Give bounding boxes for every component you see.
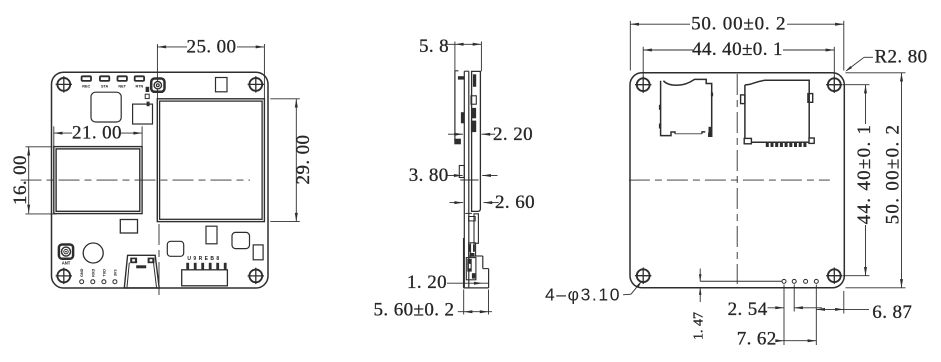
side profile: bottom connectors bbox=[469, 243, 476, 256]
dim 2.20 bbox=[448, 133, 463, 135]
mounting hole top-left bbox=[56, 76, 72, 92]
square component bbox=[133, 104, 153, 124]
serial pads GND RXD TXD 3V3 bbox=[80, 280, 84, 284]
SD side tabs bbox=[741, 95, 745, 104]
svg-text:RTN: RTN bbox=[135, 85, 143, 89]
svg-text:U9REB8: U9REB8 bbox=[187, 256, 221, 262]
small component C bbox=[232, 232, 250, 248]
ANT connector bbox=[59, 245, 73, 259]
dim 7.62 bbox=[777, 340, 816, 342]
mounting hole bottom-left bbox=[56, 268, 72, 284]
side profile: front component face bbox=[454, 70, 456, 140]
mounting hole bottom-right bbox=[248, 268, 264, 284]
centerline horizontal bbox=[21, 179, 251, 181]
mounting hole top-right bbox=[248, 76, 264, 92]
SD card holder bbox=[745, 80, 809, 142]
shield can (25.00 x 29.00) bbox=[157, 99, 264, 222]
side profile: card holder body bbox=[472, 71, 481, 211]
SIM card holder bbox=[661, 79, 712, 136]
bottom pads bbox=[782, 279, 786, 283]
svg-text:STA: STA bbox=[101, 85, 109, 89]
svg-text:3. 80: 3. 80 bbox=[409, 165, 449, 186]
dim 16.00 bbox=[28, 147, 30, 214]
SD pins bbox=[766, 143, 769, 147]
mounting hole top-right bbox=[826, 77, 842, 93]
centerline horizontal bbox=[629, 179, 830, 181]
dim 50.00±0.2 top bbox=[630, 23, 844, 25]
SD bottom-left pad bbox=[744, 138, 751, 143]
board outline bbox=[52, 72, 269, 288]
dim 16.00 extension lines bbox=[26, 146, 53, 148]
dim 5.8 bbox=[447, 43, 482, 45]
IC rounded square bbox=[91, 92, 121, 122]
svg-text:R2. 80: R2. 80 bbox=[874, 47, 927, 68]
svg-text:NET: NET bbox=[118, 85, 126, 89]
dim 44.40±0.1 right extension lines bbox=[843, 84, 870, 86]
svg-text:4–φ3.10: 4–φ3.10 bbox=[545, 285, 621, 305]
side profile: mid back component bbox=[474, 214, 478, 244]
pad row reference line bbox=[700, 280, 782, 282]
svg-text:3V3: 3V3 bbox=[113, 269, 117, 276]
dim 50.00±0.2 right bbox=[901, 73, 903, 288]
small component B bbox=[206, 226, 217, 244]
svg-text:5. 60±0. 2: 5. 60±0. 2 bbox=[374, 299, 455, 320]
IPEX RF connector J1 bbox=[151, 79, 164, 92]
board outline bbox=[630, 73, 844, 288]
svg-text:2. 54: 2. 54 bbox=[728, 299, 768, 320]
svg-text:7. 62: 7. 62 bbox=[737, 329, 777, 350]
svg-text:GND: GND bbox=[80, 268, 84, 277]
dim 6.87 bbox=[816, 308, 869, 310]
dim 1.20 bbox=[447, 282, 488, 284]
svg-text:44. 40±0. 1: 44. 40±0. 1 bbox=[692, 39, 783, 60]
dim 2.54 bbox=[768, 307, 785, 309]
rect component top right bbox=[216, 78, 228, 92]
svg-text:44. 40±0. 1: 44. 40±0. 1 bbox=[854, 124, 875, 225]
dim 25.00 extension lines bbox=[156, 44, 158, 99]
side profile: PCB front face bbox=[463, 71, 465, 288]
svg-text:50. 00±0. 2: 50. 00±0. 2 bbox=[691, 14, 786, 35]
centerline through side view bbox=[460, 179, 478, 181]
svg-text:2. 60: 2. 60 bbox=[495, 192, 535, 213]
SD bottom-right pad bbox=[809, 138, 814, 143]
dim 44.40±0.1 top bbox=[643, 49, 834, 51]
module rect 21.00 x 16.00 bbox=[54, 147, 142, 214]
dim 44.40±0.1 right bbox=[865, 85, 867, 276]
dim 5.60±0.2 bbox=[458, 311, 492, 313]
svg-text:16. 00: 16. 00 bbox=[10, 155, 31, 205]
dim 50.00±0.2 top extension lines bbox=[629, 21, 631, 71]
dim 5.60±0.2 extension lines bbox=[463, 290, 465, 315]
small component D bbox=[253, 245, 263, 260]
svg-text:5. 8: 5. 8 bbox=[419, 36, 449, 57]
small parts below IPEX bbox=[146, 87, 150, 92]
dim 50.00±0.2 right extension lines bbox=[846, 72, 906, 74]
side profile: PCB back face bbox=[468, 71, 470, 288]
svg-text:ANT: ANT bbox=[62, 260, 71, 265]
dim 25.00 bbox=[157, 46, 264, 48]
dim 2.54 extension lines bbox=[783, 285, 785, 346]
svg-text:29. 00: 29. 00 bbox=[293, 135, 314, 185]
small side component bbox=[459, 166, 464, 178]
buzzer circle bbox=[83, 243, 103, 263]
USB connector bbox=[124, 255, 159, 288]
pin header bbox=[182, 270, 228, 286]
dim 7.62 extension line bbox=[815, 285, 817, 346]
dim 3.80 bbox=[448, 175, 463, 177]
svg-text:TXD: TXD bbox=[102, 269, 106, 277]
mounting hole bottom-left bbox=[635, 268, 651, 284]
dim 5.8 extension lines bbox=[454, 42, 456, 71]
dim 44.40±0.1 top extension lines bbox=[642, 47, 644, 78]
dim 29.00 extension lines bbox=[270, 98, 300, 100]
dim 2.60 bbox=[450, 202, 464, 204]
mounting hole bottom-right bbox=[826, 268, 842, 284]
svg-text:1. 20: 1. 20 bbox=[407, 272, 447, 293]
svg-text:2. 20: 2. 20 bbox=[493, 124, 533, 145]
svg-text:25. 00: 25. 00 bbox=[187, 36, 237, 57]
dim 29.00 bbox=[295, 99, 297, 222]
LED indicators bbox=[82, 76, 91, 81]
svg-text:1. 47: 1. 47 bbox=[691, 312, 706, 340]
centerline vertical bbox=[158, 224, 160, 299]
dim 21.00 bbox=[54, 132, 142, 134]
svg-text:RXD: RXD bbox=[91, 269, 95, 277]
svg-text:REC: REC bbox=[82, 85, 90, 89]
svg-text:6. 87: 6. 87 bbox=[872, 302, 912, 323]
dim 21.00 extension lines bbox=[53, 126, 55, 146]
dim 1.47 bbox=[699, 269, 701, 282]
small component A bbox=[167, 241, 183, 256]
centerline vertical bbox=[736, 74, 738, 284]
square component under module bbox=[120, 220, 137, 234]
svg-text:50. 00±0. 2: 50. 00±0. 2 bbox=[883, 124, 904, 225]
mounting hole top-left bbox=[635, 77, 651, 93]
svg-text:21. 00: 21. 00 bbox=[72, 123, 122, 144]
